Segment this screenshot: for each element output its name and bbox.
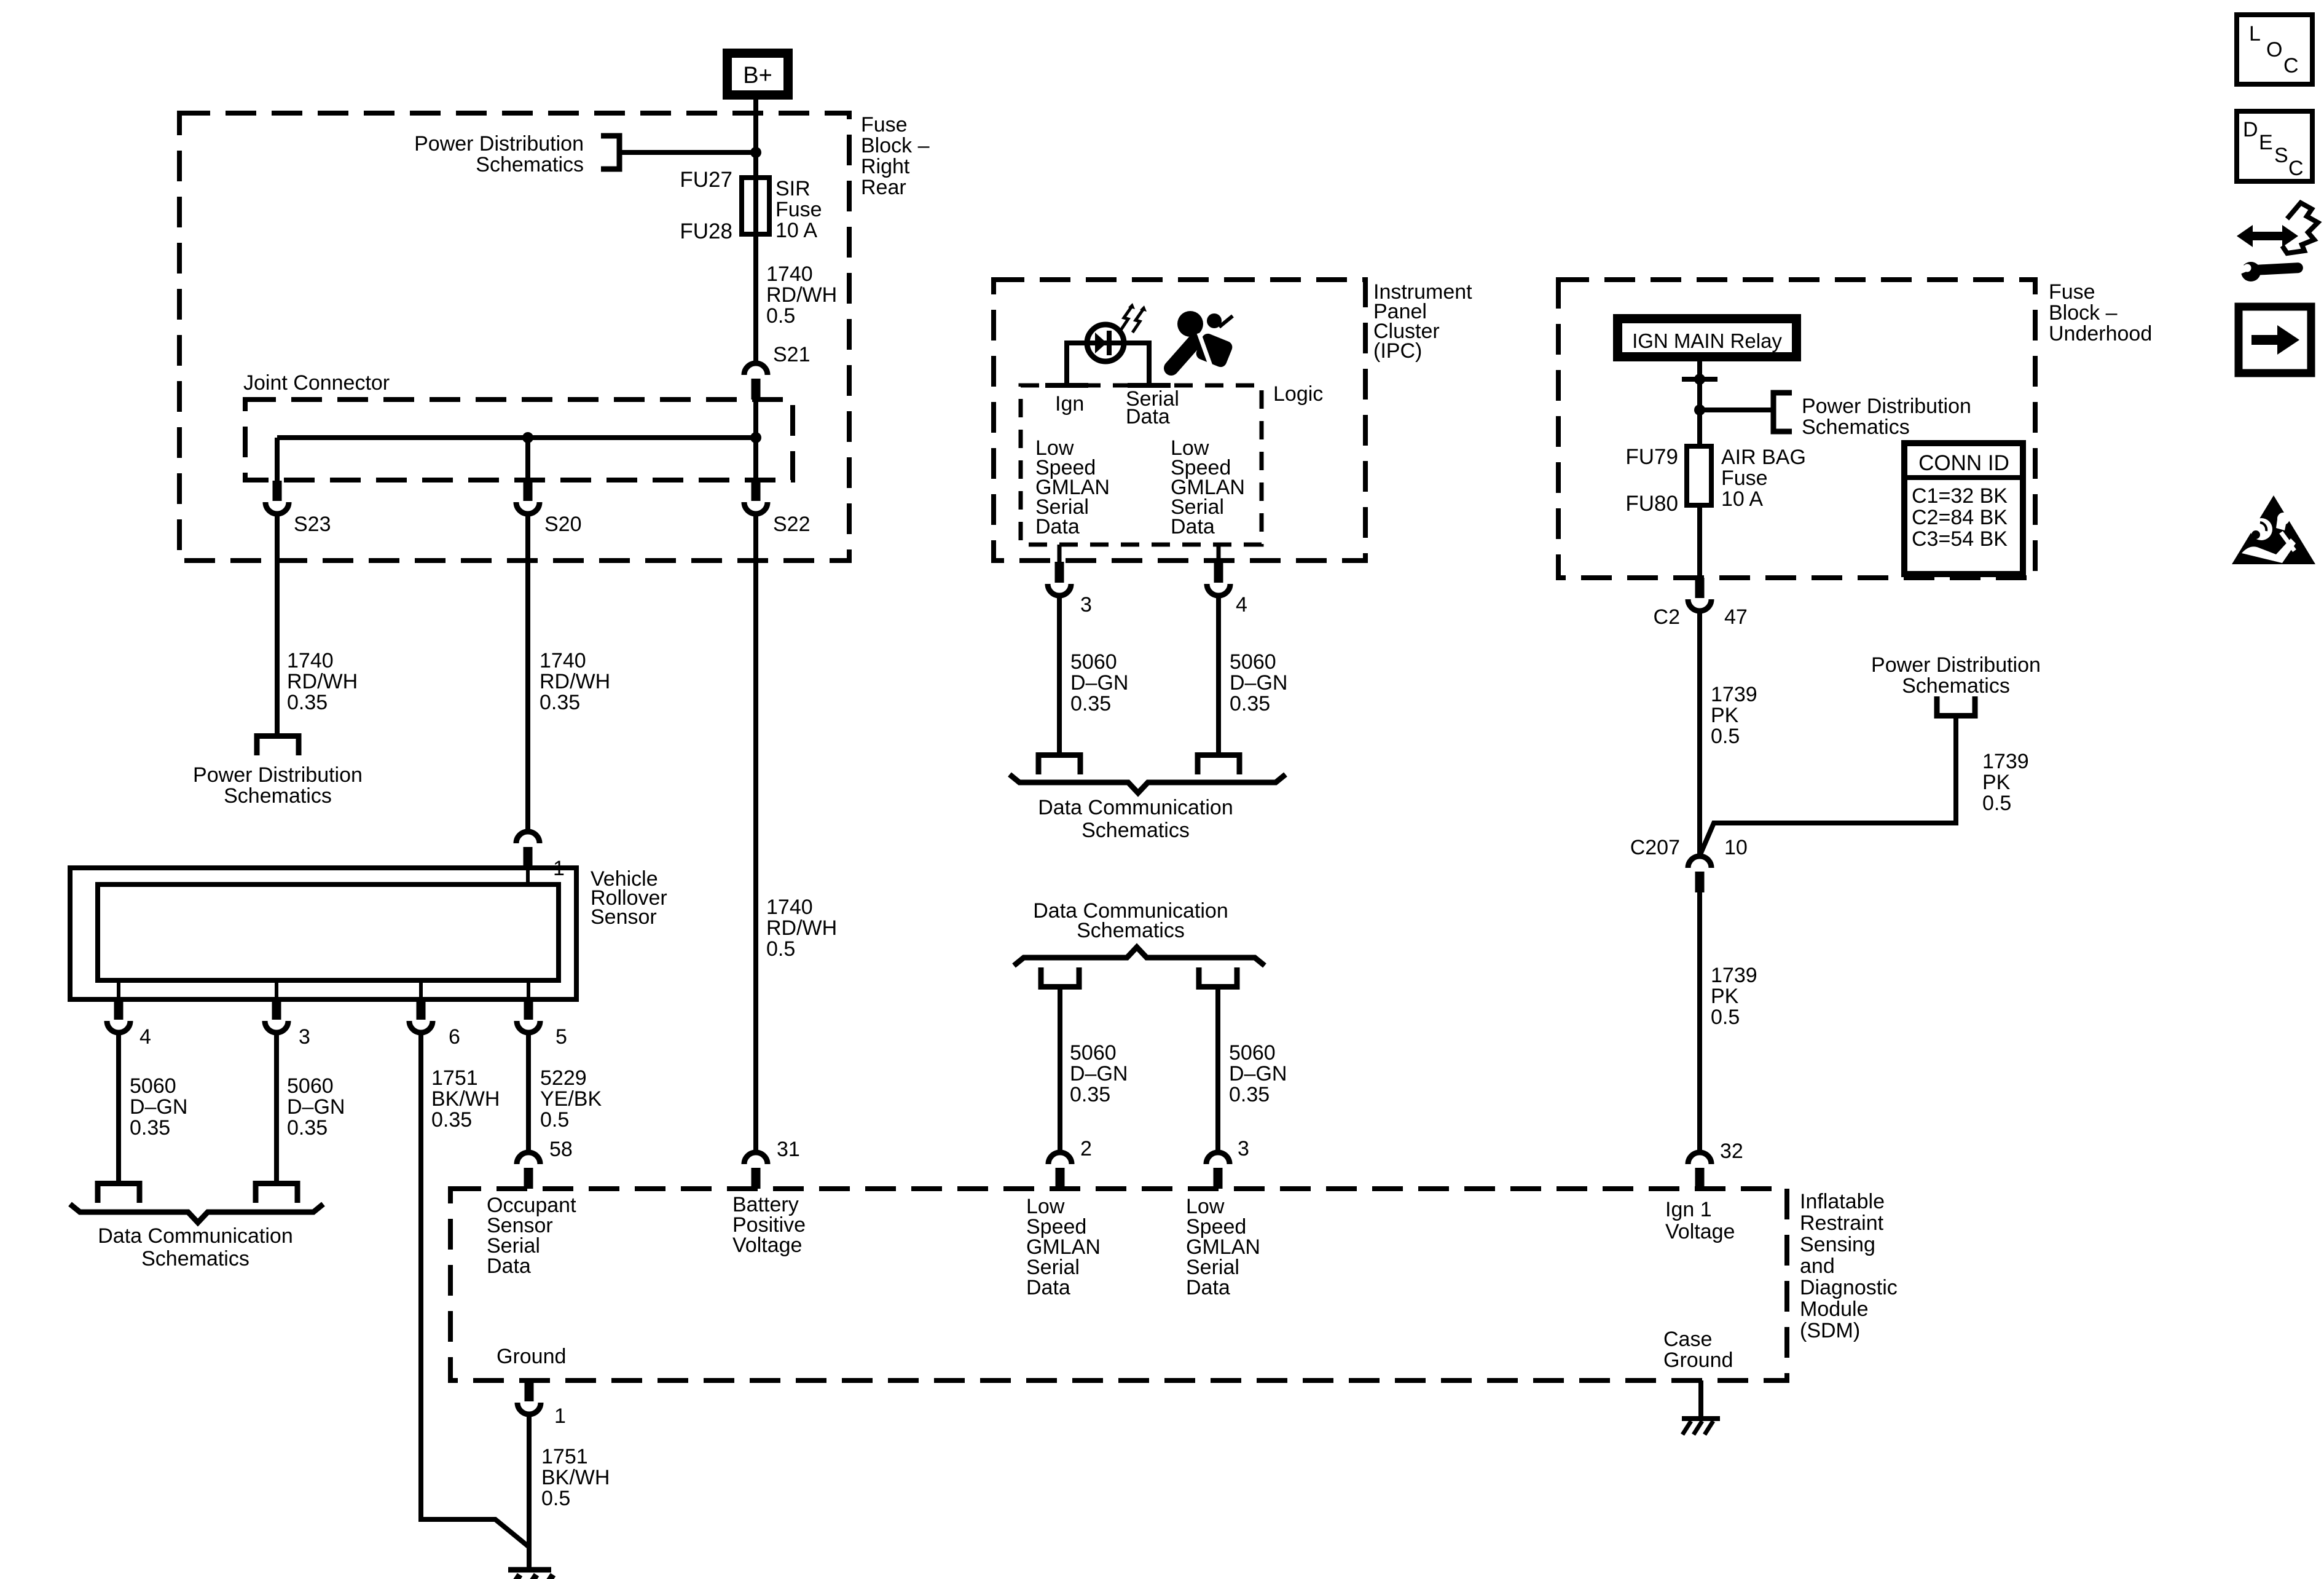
- svg-text:1: 1: [554, 1404, 566, 1428]
- IPC logic dashed box: [1021, 385, 1262, 545]
- svg-text:Restraint: Restraint: [1800, 1211, 1884, 1235]
- svg-text:4: 4: [139, 1025, 151, 1049]
- pin 1 connector SDM ground: [525, 1380, 534, 1401]
- airbag warning icon body wedge: [1195, 332, 1235, 369]
- wire C2 to C207: [1697, 611, 1702, 856]
- svg-text:CONN ID: CONN ID: [1918, 451, 2009, 475]
- svg-text:Fuse: Fuse: [2049, 280, 2095, 304]
- svg-text:Diagnostic: Diagnostic: [1800, 1276, 1898, 1299]
- svg-text:Fuse: Fuse: [1721, 467, 1768, 490]
- wire to power distribution bracket: [1700, 408, 1771, 412]
- svg-text:BK/WH: BK/WH: [541, 1466, 610, 1489]
- svg-text:Sensing: Sensing: [1800, 1233, 1875, 1256]
- svg-text:5060: 5060: [1230, 650, 1276, 674]
- svg-text:D–GN: D–GN: [130, 1095, 187, 1119]
- pin 5 connector rollover sensor: [527, 980, 530, 999]
- pin 3 connector rollover sensor: [275, 980, 278, 999]
- svg-text:Data: Data: [1126, 405, 1170, 428]
- svg-text:O: O: [2266, 38, 2282, 61]
- svg-text:PK: PK: [1711, 704, 1739, 727]
- svg-text:C1=32 BK: C1=32 BK: [1912, 484, 2008, 508]
- svg-text:Inflatable: Inflatable: [1800, 1190, 1885, 1213]
- svg-text:and: and: [1800, 1254, 1835, 1278]
- wire spade to C207 junction: [1700, 717, 1956, 854]
- indicator diode triangle: [1095, 333, 1107, 353]
- connector C207 pin 10: [1688, 856, 1711, 868]
- svg-text:0.35: 0.35: [1230, 692, 1270, 715]
- svg-text:(SDM): (SDM): [1800, 1319, 1860, 1342]
- terminal spade pin 3: [256, 1184, 297, 1203]
- svg-text:Ign 1: Ign 1: [1665, 1198, 1712, 1221]
- svg-text:1740: 1740: [766, 896, 813, 919]
- svg-text:1740: 1740: [766, 262, 813, 286]
- svg-text:5: 5: [555, 1025, 567, 1049]
- power terminal B+ box: [723, 49, 793, 100]
- svg-text:Schematics: Schematics: [1802, 415, 1910, 439]
- junction node power distribution tap: [1694, 404, 1705, 415]
- wire pin 3 to spade: [274, 1033, 279, 1181]
- wire pin 6 (1751) to G306: [421, 1033, 529, 1547]
- svg-text:Data: Data: [1186, 1276, 1230, 1299]
- svg-text:SIR: SIR: [775, 177, 811, 200]
- svg-text:Schematics: Schematics: [1082, 819, 1190, 842]
- svg-text:3: 3: [1238, 1137, 1249, 1160]
- svg-text:G306: G306: [565, 1577, 616, 1579]
- svg-text:1751: 1751: [431, 1066, 478, 1090]
- svg-text:Block –: Block –: [2049, 301, 2118, 325]
- svg-text:Ign: Ign: [1055, 392, 1084, 415]
- svg-text:Rear: Rear: [861, 176, 906, 199]
- wire S21 through joint connector: [753, 400, 758, 481]
- wire S23 down to spade: [275, 514, 280, 733]
- terminal spade IPC pin 4: [1198, 755, 1239, 775]
- splice S20 connector: [524, 481, 533, 501]
- wire bracket to B+ feed: [619, 150, 756, 155]
- svg-text:5060: 5060: [1070, 1041, 1117, 1065]
- svg-text:0.5: 0.5: [1982, 792, 2011, 815]
- junction node S20 tap: [522, 432, 533, 443]
- svg-text:32: 32: [1720, 1140, 1743, 1163]
- indicator diode bar: [1107, 331, 1112, 355]
- svg-text:6: 6: [449, 1025, 460, 1049]
- svg-text:0.5: 0.5: [1711, 1006, 1740, 1029]
- svg-text:47: 47: [1724, 605, 1748, 629]
- svg-text:FU27: FU27: [680, 168, 732, 192]
- svg-text:Module: Module: [1800, 1297, 1869, 1321]
- svg-text:10 A: 10 A: [775, 219, 817, 242]
- svg-text:0.35: 0.35: [1070, 1083, 1110, 1106]
- svg-text:(IPC): (IPC): [1373, 339, 1422, 363]
- svg-text:Power Distribution: Power Distribution: [414, 132, 584, 156]
- splice S21 connector: [744, 363, 767, 375]
- svg-text:1740: 1740: [287, 649, 334, 672]
- svg-text:Power Distribution: Power Distribution: [1802, 395, 1971, 418]
- wire B+ down to fuse: [753, 100, 758, 364]
- ground G306: [508, 1567, 551, 1573]
- svg-text:S21: S21: [773, 343, 811, 366]
- airbag indicator lamp circle: [1087, 325, 1124, 361]
- svg-text:Data Communication: Data Communication: [98, 1224, 292, 1248]
- wire C207 to SDM pin 32: [1697, 892, 1702, 1154]
- svg-text:Schematics: Schematics: [1902, 674, 2010, 698]
- svg-text:S: S: [2274, 144, 2288, 167]
- icon SIR caution triangle: [2232, 495, 2315, 564]
- svg-text:3: 3: [299, 1025, 310, 1049]
- wire pin 5 (5229) to SDM pin 58: [526, 1033, 531, 1154]
- svg-text:0.5: 0.5: [540, 1108, 569, 1132]
- svg-text:L: L: [2249, 22, 2261, 45]
- wire spade to SDM pin 2: [1058, 990, 1062, 1154]
- pin 31 connector SDM: [744, 1152, 767, 1164]
- svg-text:58: 58: [549, 1138, 573, 1161]
- svg-text:Fuse: Fuse: [775, 198, 822, 221]
- svg-text:0.35: 0.35: [287, 691, 328, 714]
- terminal spade power distribution (right mid): [1937, 696, 1975, 716]
- wire SDM pin 1 to G306: [527, 1414, 532, 1569]
- svg-text:5229: 5229: [540, 1066, 587, 1090]
- svg-text:Power Distribution: Power Distribution: [1871, 653, 2041, 677]
- terminal spade to SDM pin 2: [1041, 967, 1079, 987]
- svg-text:1751: 1751: [541, 1445, 588, 1468]
- svg-text:Data Communication: Data Communication: [1038, 796, 1233, 819]
- svg-text:C2=84 BK: C2=84 BK: [1912, 506, 2008, 529]
- svg-text:4: 4: [1236, 593, 1247, 616]
- airbag warning icon torso: [1171, 342, 1195, 368]
- svg-text:S20: S20: [544, 513, 582, 536]
- svg-text:0.5: 0.5: [766, 304, 795, 328]
- IGN MAIN Relay box: [1613, 314, 1801, 361]
- pin 2 connector SDM: [1048, 1152, 1072, 1164]
- svg-text:10 A: 10 A: [1721, 487, 1763, 511]
- svg-text:RD/WH: RD/WH: [766, 283, 837, 307]
- svg-text:3: 3: [1080, 593, 1092, 616]
- svg-text:Underhood: Underhood: [2049, 322, 2152, 345]
- svg-text:Voltage: Voltage: [1665, 1220, 1735, 1243]
- svg-text:YE/BK: YE/BK: [540, 1087, 602, 1111]
- svg-text:Data: Data: [1026, 1276, 1070, 1299]
- pin 4 connector rollover sensor: [117, 980, 120, 999]
- terminal spade IPC pin 3: [1038, 755, 1080, 775]
- svg-text:1739: 1739: [1982, 750, 2029, 773]
- svg-text:D–GN: D–GN: [287, 1095, 345, 1119]
- svg-text:C2: C2: [1654, 605, 1680, 629]
- svg-text:C3=54 BK: C3=54 BK: [1912, 527, 2008, 551]
- fuse SIR FU27/FU28: [742, 178, 769, 234]
- svg-text:0.35: 0.35: [540, 691, 580, 714]
- instrument panel cluster dashed box: [994, 280, 1365, 561]
- wire relay to fuse FU79: [1697, 361, 1702, 446]
- svg-text:D–GN: D–GN: [1230, 671, 1287, 695]
- terminal spade pin 4: [98, 1184, 139, 1203]
- relay output T bar: [1682, 377, 1717, 382]
- connector C2 pin 47: [1695, 578, 1705, 598]
- svg-text:D–GN: D–GN: [1070, 671, 1128, 695]
- svg-text:FU28: FU28: [680, 219, 732, 243]
- svg-text:10: 10: [1724, 836, 1748, 859]
- svg-text:1739: 1739: [1711, 964, 1757, 987]
- svg-text:Right: Right: [861, 155, 910, 178]
- svg-text:B+: B+: [743, 63, 772, 89]
- wire bus to S23: [275, 438, 280, 481]
- pin 32 connector SDM: [1688, 1152, 1711, 1164]
- svg-text:C207: C207: [1630, 836, 1680, 859]
- svg-text:0.5: 0.5: [1711, 725, 1740, 748]
- svg-text:E: E: [2259, 131, 2273, 154]
- svg-text:Schematics: Schematics: [224, 784, 332, 808]
- brace data communication (left): [70, 1204, 323, 1223]
- fuse block underhood dashed box: [1558, 280, 2035, 578]
- svg-text:2: 2: [1080, 1137, 1092, 1160]
- pin 3 connector SDM: [1206, 1152, 1230, 1164]
- svg-text:Fuse: Fuse: [861, 113, 908, 136]
- junction node: [750, 147, 761, 158]
- svg-text:1: 1: [553, 857, 565, 880]
- svg-text:Data: Data: [1035, 515, 1080, 538]
- splice S22 connector: [752, 481, 761, 501]
- svg-text:0.35: 0.35: [287, 1116, 328, 1140]
- svg-text:PK: PK: [1711, 985, 1739, 1008]
- svg-text:Ground: Ground: [1663, 1349, 1733, 1372]
- svg-text:5060: 5060: [1070, 650, 1117, 674]
- CONN ID table: [1904, 443, 2023, 574]
- icon LOC box: [2237, 15, 2312, 84]
- svg-text:Ground: Ground: [497, 1345, 566, 1368]
- pin 1 connector rollover sensor: [516, 832, 540, 843]
- svg-text:Joint Connector: Joint Connector: [243, 371, 390, 395]
- wire pin 4 to spade: [116, 1033, 121, 1181]
- wire IPC pin 4 to spade: [1216, 596, 1221, 752]
- brace data communication (IPC): [1010, 774, 1286, 793]
- wire bus to S20: [525, 438, 530, 481]
- icon pointer arrow and wrench: [2237, 225, 2298, 247]
- svg-text:Sensor: Sensor: [591, 905, 657, 929]
- joint connector bus wire: [277, 435, 756, 440]
- pin 3 connector IPC: [1058, 545, 1062, 562]
- svg-text:D–GN: D–GN: [1070, 1062, 1128, 1085]
- splice S23 connector: [273, 481, 282, 501]
- airbag warning icon belt line: [1219, 316, 1233, 327]
- svg-text:FU79: FU79: [1625, 445, 1678, 469]
- wire IPC pin 3 to spade: [1057, 596, 1062, 752]
- bracket power distribution (underhood): [1773, 393, 1792, 431]
- terminal spade to power distribution: [257, 736, 299, 756]
- wire spade to SDM pin 3: [1215, 990, 1220, 1154]
- svg-text:5060: 5060: [287, 1074, 334, 1098]
- svg-text:S23: S23: [294, 513, 331, 536]
- svg-text:Voltage: Voltage: [732, 1234, 802, 1257]
- fuse AIR BAG FU79/FU80: [1687, 446, 1711, 505]
- svg-text:RD/WH: RD/WH: [540, 670, 610, 693]
- vehicle rollover sensor inner box: [98, 884, 559, 980]
- vehicle rollover sensor outer box: [70, 868, 576, 999]
- svg-text:Case: Case: [1663, 1328, 1712, 1351]
- terminal spade to SDM pin 3: [1199, 967, 1237, 987]
- svg-text:FU80: FU80: [1625, 492, 1678, 516]
- svg-text:1740: 1740: [540, 649, 586, 672]
- svg-text:0.5: 0.5: [541, 1487, 570, 1510]
- svg-text:RD/WH: RD/WH: [287, 670, 358, 693]
- wire S22 down to SDM pin 31: [753, 514, 758, 1154]
- svg-text:0.35: 0.35: [1070, 692, 1111, 715]
- svg-text:S22: S22: [773, 513, 811, 536]
- svg-text:Logic: Logic: [1273, 382, 1323, 406]
- svg-text:0.5: 0.5: [766, 937, 795, 961]
- inflatable restraint SDM dashed box: [450, 1189, 1787, 1380]
- svg-text:PK: PK: [1982, 771, 2011, 794]
- airbag warning icon head: [1177, 311, 1203, 337]
- svg-text:Data: Data: [1171, 515, 1215, 538]
- airbag indicator lamp wire: [1067, 341, 1149, 345]
- svg-text:BK/WH: BK/WH: [431, 1087, 500, 1111]
- pin 58 connector SDM: [517, 1152, 540, 1164]
- svg-text:AIR BAG: AIR BAG: [1721, 446, 1806, 469]
- indicator lightning arrow 2: [1133, 308, 1144, 333]
- airbag warning icon bag: [1207, 313, 1222, 328]
- svg-text:Data: Data: [487, 1254, 531, 1278]
- indicator leg Serial Data: [1147, 341, 1152, 385]
- svg-text:Schematics: Schematics: [476, 153, 584, 176]
- svg-text:Schematics: Schematics: [141, 1247, 249, 1270]
- fuse block right rear dashed box: [179, 113, 849, 561]
- junction node relay: [1694, 374, 1705, 385]
- svg-text:1739: 1739: [1711, 683, 1757, 706]
- svg-text:Power Distribution: Power Distribution: [193, 763, 363, 787]
- logic box top pads at indicator legs: [1045, 383, 1088, 388]
- svg-text:D: D: [2243, 118, 2258, 141]
- ground case (SDM): [1682, 1416, 1720, 1421]
- svg-text:5060: 5060: [1229, 1041, 1276, 1065]
- svg-text:5060: 5060: [130, 1074, 176, 1098]
- svg-text:D–GN: D–GN: [1229, 1062, 1287, 1085]
- svg-text:0.35: 0.35: [1229, 1083, 1270, 1106]
- indicator lightning arrow 1: [1121, 305, 1133, 330]
- wire fuse to C2: [1697, 505, 1702, 578]
- brace data communication (mid): [1014, 947, 1265, 966]
- pin 6 connector rollover sensor: [419, 980, 423, 999]
- svg-text:0.35: 0.35: [130, 1116, 170, 1140]
- icon forward arrow box: [2239, 307, 2311, 373]
- svg-text:IGN MAIN Relay: IGN MAIN Relay: [1632, 329, 1782, 352]
- svg-text:Schematics: Schematics: [1077, 919, 1185, 942]
- indicator leg Ign: [1064, 341, 1069, 385]
- bracket to power distribution: [601, 136, 619, 169]
- junction node S22 tap: [750, 432, 761, 443]
- svg-text:RD/WH: RD/WH: [766, 916, 837, 940]
- svg-text:Block –: Block –: [861, 134, 930, 157]
- svg-text:C: C: [2288, 157, 2304, 180]
- wire S20 down to rollover sensor: [525, 514, 530, 833]
- pin 4 connector IPC: [1217, 545, 1221, 562]
- joint connector dashed box: [245, 400, 793, 480]
- svg-text:C: C: [2283, 54, 2299, 77]
- svg-text:0.35: 0.35: [431, 1108, 472, 1132]
- airbag warning icon white gap: [1199, 333, 1213, 372]
- icon DESC box: [2237, 111, 2312, 181]
- wire case ground: [1698, 1380, 1703, 1419]
- svg-text:31: 31: [777, 1138, 800, 1161]
